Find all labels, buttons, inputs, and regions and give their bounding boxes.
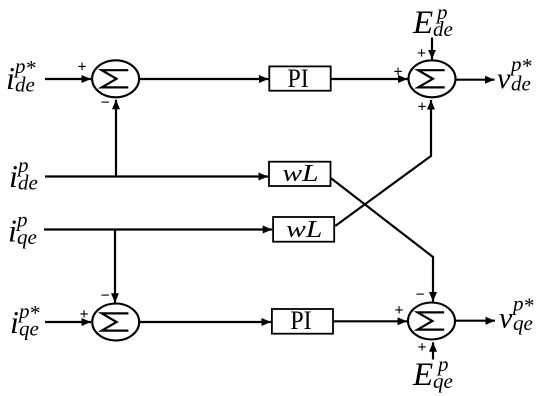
svg-text:v: v (497, 62, 511, 95)
svg-text:+: + (77, 59, 86, 76)
svg-text:−: − (415, 287, 424, 304)
svg-text:+: + (393, 64, 402, 81)
svg-text:+: + (417, 99, 426, 116)
svg-text:de: de (511, 72, 531, 96)
svg-text:de: de (15, 73, 35, 97)
svg-text:qe: qe (513, 311, 533, 335)
svg-text:+: + (79, 306, 88, 323)
svg-text:de: de (18, 171, 38, 195)
svg-text:E: E (412, 5, 433, 41)
svg-text:qe: qe (17, 225, 37, 249)
svg-text:E: E (412, 357, 433, 393)
svg-text:−: − (100, 95, 109, 112)
svg-text:wL: wL (282, 160, 318, 187)
svg-text:i: i (10, 304, 19, 340)
svg-text:qe: qe (433, 369, 453, 393)
svg-text:+: + (394, 302, 403, 319)
svg-text:+: + (417, 45, 426, 62)
svg-text:i: i (9, 158, 18, 194)
svg-text:de: de (433, 17, 453, 41)
svg-text:qe: qe (19, 317, 39, 341)
svg-text:−: − (100, 288, 109, 305)
svg-text:PI: PI (290, 306, 311, 335)
svg-text:PI: PI (288, 64, 309, 93)
svg-text:+: + (417, 339, 426, 356)
svg-text:i: i (6, 60, 15, 96)
svg-text:i: i (8, 213, 17, 249)
svg-text:v: v (499, 302, 513, 335)
svg-text:wL: wL (286, 216, 322, 243)
